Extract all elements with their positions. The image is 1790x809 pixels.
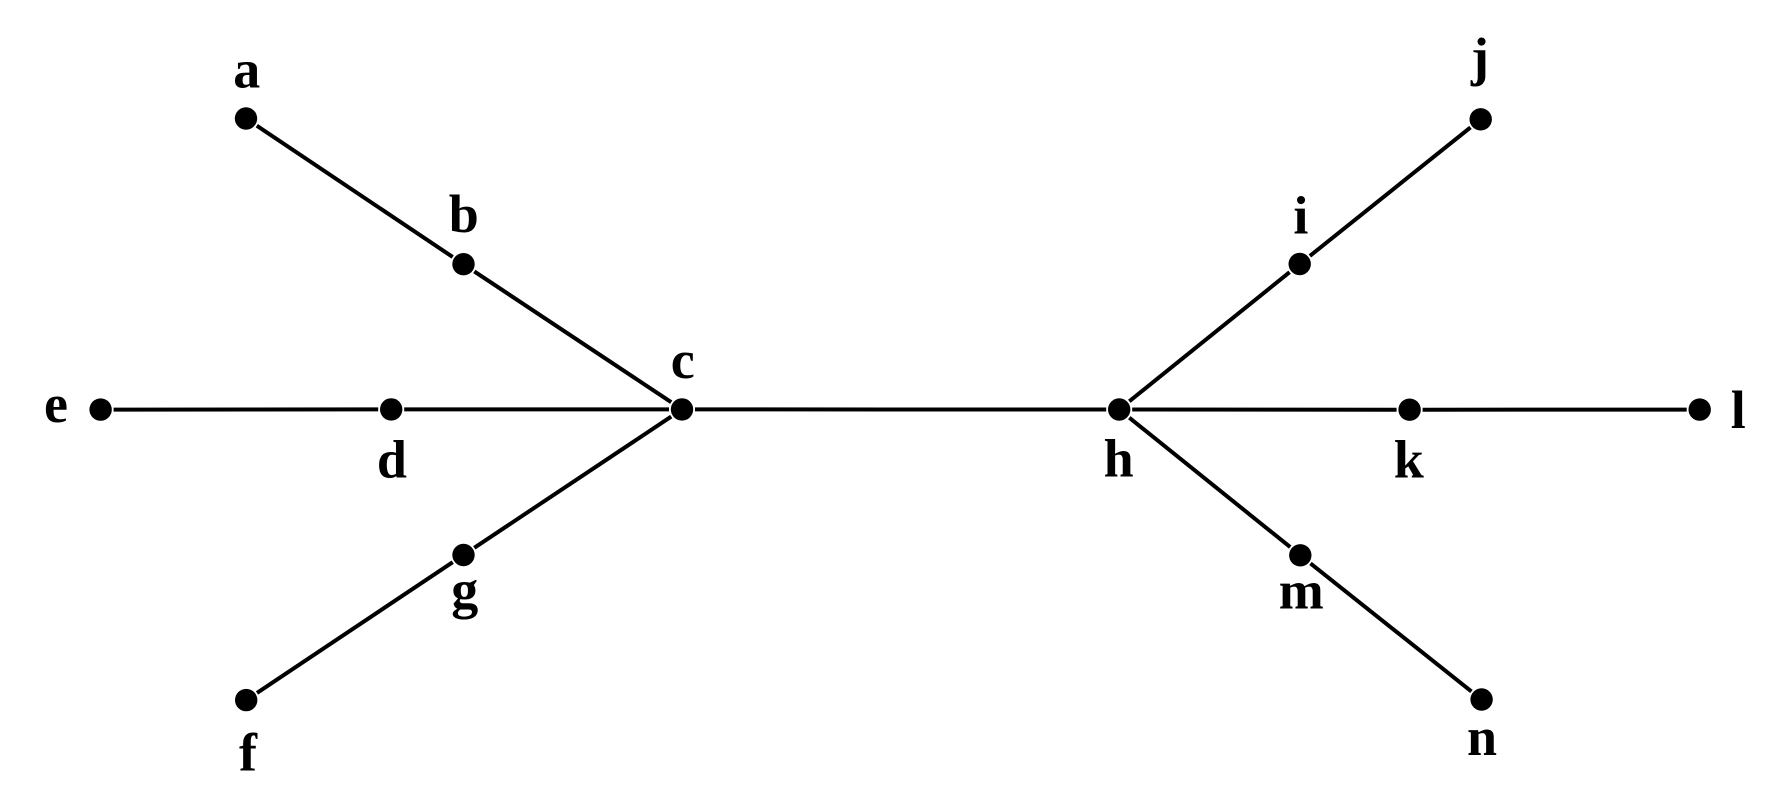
vertex k bbox=[1398, 399, 1420, 421]
svg-text:f: f bbox=[239, 723, 258, 783]
vertex h bbox=[1108, 398, 1130, 420]
edge h-m bbox=[1129, 418, 1290, 547]
svg-text:k: k bbox=[1394, 430, 1424, 490]
svg-text:a: a bbox=[233, 40, 260, 100]
vertex c bbox=[671, 398, 693, 420]
edge c-d bbox=[404, 407, 669, 411]
svg-text:n: n bbox=[1467, 707, 1497, 767]
vertex m bbox=[1289, 544, 1311, 566]
edge m-n bbox=[1311, 563, 1472, 691]
edge g-f bbox=[257, 562, 453, 693]
svg-text:m: m bbox=[1279, 561, 1324, 621]
vertex g bbox=[452, 544, 474, 566]
vertex d bbox=[380, 398, 402, 420]
svg-text:e: e bbox=[44, 374, 68, 434]
edge k-l bbox=[1423, 408, 1687, 412]
vertex b bbox=[452, 253, 474, 275]
vertex l bbox=[1689, 398, 1711, 420]
svg-text:b: b bbox=[449, 184, 479, 244]
vertex n bbox=[1470, 688, 1492, 710]
svg-text:l: l bbox=[1731, 380, 1746, 440]
edge h-k bbox=[1132, 408, 1396, 412]
edge c-h bbox=[695, 407, 1106, 411]
edge d-e bbox=[114, 407, 379, 411]
edge b-c bbox=[474, 271, 671, 402]
svg-text:g: g bbox=[451, 560, 478, 620]
svg-text:j: j bbox=[1470, 27, 1489, 87]
vertex e bbox=[89, 398, 111, 420]
vertex a bbox=[235, 107, 257, 129]
edge i-j bbox=[1310, 127, 1471, 256]
vertex f bbox=[235, 689, 257, 711]
svg-text:i: i bbox=[1293, 185, 1308, 245]
edge h-i bbox=[1129, 272, 1289, 401]
edge a-b bbox=[257, 126, 453, 257]
vertex j bbox=[1470, 108, 1492, 130]
svg-text:c: c bbox=[671, 330, 695, 390]
vertex i bbox=[1289, 253, 1311, 275]
svg-text:d: d bbox=[377, 430, 407, 490]
svg-text:h: h bbox=[1104, 429, 1134, 489]
edge c-g bbox=[474, 417, 671, 548]
